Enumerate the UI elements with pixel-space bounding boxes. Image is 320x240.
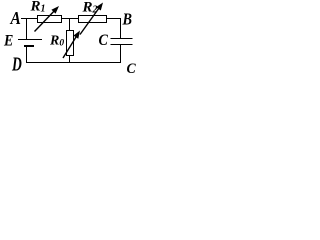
svg-text:A: A (10, 8, 21, 28)
resistor R2 body (79, 16, 107, 23)
resistor R0 body (67, 31, 74, 56)
wire: capacitor to bottom rail (120, 45, 122, 63)
wire: left branch down from top rail (26, 19, 28, 40)
svg-text:B: B (122, 10, 132, 29)
resistor R1 wiper arrow (35, 6, 60, 32)
svg-text:E: E (3, 33, 13, 50)
wire: battery to bottom rail (26, 46, 28, 63)
wire: mid junction down to R0 (69, 19, 71, 31)
capacitor C bottom plate (111, 44, 133, 46)
svg-text:D: D (11, 53, 22, 75)
svg-text:C: C (99, 32, 109, 49)
wire: R0 to bottom rail (69, 56, 71, 63)
wire: B corner down to capacitor (120, 19, 122, 39)
resistor R1 body (38, 16, 62, 23)
resistor R0 wiper arrow (63, 31, 80, 59)
battery E long plate (18, 39, 42, 41)
wire: bottom rail D to C (26, 62, 121, 64)
resistor R2 wiper arrow (80, 3, 103, 35)
svg-text:C: C (127, 61, 136, 77)
capacitor C top plate (111, 38, 133, 40)
wire: top rail A to B (21, 18, 121, 20)
battery E short plate (24, 45, 34, 47)
